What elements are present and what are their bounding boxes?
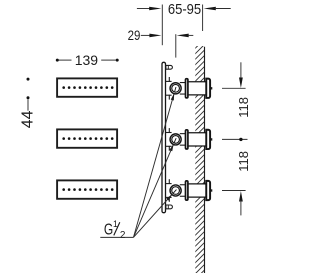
svg-text:G: G bbox=[104, 220, 113, 238]
jet axis extension line bbox=[175, 34, 177, 57]
dim 139 dot left bbox=[56, 59, 59, 62]
svg-text:118: 118 bbox=[236, 97, 251, 118]
dim 118 bottom arrowhead bbox=[239, 191, 243, 202]
leader arrowhead jet 1 bbox=[171, 93, 174, 100]
svg-text:65-95: 65-95 bbox=[168, 1, 202, 17]
jet assembly 2 (side) bbox=[166, 128, 213, 151]
dim 29 right line bbox=[188, 34, 194, 36]
leader line to jet 1 bbox=[134, 88, 176, 237]
dim 118 bottom arrow line bbox=[240, 200, 242, 215]
dim 29 left line bbox=[141, 34, 151, 36]
dim 139 line right bbox=[101, 59, 116, 61]
dim 65-95 left arrow bbox=[149, 7, 161, 11]
dim 139 dot right bbox=[116, 59, 119, 62]
svg-text:44: 44 bbox=[20, 110, 37, 128]
body jet 2 (front) bbox=[57, 129, 117, 147]
shared extension line (plate face) bbox=[161, 5, 163, 46]
mounting plate bbox=[162, 62, 166, 212]
leader arrowhead jet 3 bbox=[166, 194, 172, 200]
body jet 3 (front) bbox=[57, 180, 117, 198]
svg-text:2: 2 bbox=[120, 230, 126, 241]
dim 65-95 right line bbox=[215, 8, 231, 10]
dim 44 dot top bbox=[27, 78, 30, 81]
svg-text:139: 139 bbox=[75, 52, 99, 68]
tick jet 1 bbox=[222, 87, 246, 89]
leader arrowhead jet 2 bbox=[169, 144, 173, 151]
label underline bbox=[100, 236, 133, 238]
leader line to jet 2 bbox=[134, 139, 176, 237]
body jet 1 (front) bbox=[57, 78, 117, 96]
dim 44 dot bottom bbox=[27, 96, 30, 99]
dim 65-95 left line bbox=[137, 8, 150, 10]
wall hatch bbox=[186, 30, 214, 273]
dim 139 line left bbox=[59, 59, 72, 61]
jet assembly 1 (side) bbox=[166, 77, 213, 100]
dim 29 right arrow bbox=[177, 34, 189, 38]
leader line to jet 3 bbox=[134, 191, 176, 238]
dim 29 left arrow bbox=[149, 34, 161, 38]
wall front edge bbox=[204, 47, 206, 273]
nozzle dots jet 2 bbox=[62, 137, 113, 140]
jet assembly 3 (side) bbox=[166, 179, 213, 202]
dim 118 top arrow line bbox=[240, 62, 242, 79]
nozzle dots jet 3 bbox=[62, 188, 113, 191]
svg-text:118: 118 bbox=[236, 151, 251, 172]
tick jet 2 bbox=[222, 138, 248, 140]
dim 44 extension bbox=[27, 99, 29, 110]
svg-text:29: 29 bbox=[128, 27, 141, 43]
dim 118 mid dot bbox=[239, 138, 242, 141]
wall face extension line bbox=[202, 5, 204, 32]
tick jet 3 bbox=[222, 190, 246, 192]
nozzle dots jet 1 bbox=[62, 86, 113, 89]
dim 118 top arrowhead bbox=[239, 78, 243, 89]
dim 65-95 right arrow bbox=[204, 7, 216, 11]
top inlet tab bbox=[166, 65, 173, 69]
bottom inlet tab bbox=[166, 205, 173, 209]
